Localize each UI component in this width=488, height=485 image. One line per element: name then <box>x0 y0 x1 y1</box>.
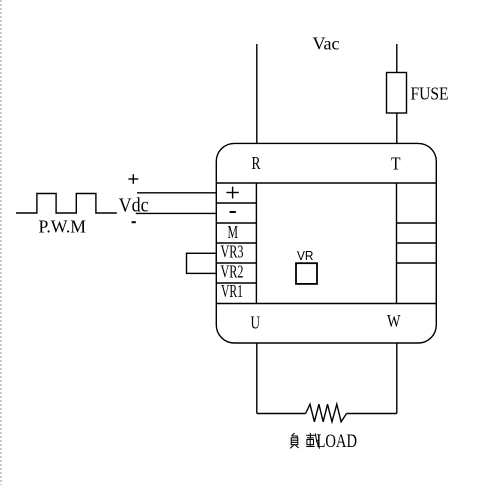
controller box U1 <box>216 143 436 343</box>
left pin cell divider 1 <box>216 202 256 204</box>
svg-text:P.W.M: P.W.M <box>39 216 87 236</box>
svg-text:VR: VR <box>297 248 314 263</box>
right cell divider 3 <box>397 262 437 264</box>
label LOAD <box>317 431 358 452</box>
wire load resistor to W <box>347 413 397 415</box>
label + (Vdc polarity) <box>128 178 138 180</box>
jumper loop VR3-VR2 <box>187 253 217 273</box>
svg-text:LOAD: LOAD <box>317 431 358 452</box>
pin label + <box>226 192 238 194</box>
fuse FUSE <box>387 73 407 114</box>
pin VR1 <box>221 281 243 301</box>
left pin cell divider 5 <box>216 282 256 284</box>
right cell divider 2 <box>397 242 437 244</box>
pin label - <box>230 211 236 213</box>
terminal W <box>387 311 401 331</box>
wire fuse to terminal T <box>396 113 398 143</box>
pin M <box>228 222 239 242</box>
wire W down <box>396 343 398 414</box>
node Vac <box>313 34 340 54</box>
svg-text:Vac: Vac <box>313 34 340 54</box>
left pin cell divider 3 <box>216 242 256 244</box>
wire U to load resistor <box>257 413 306 415</box>
svg-text:VR3: VR3 <box>221 242 244 262</box>
label P.W.M <box>39 216 87 236</box>
pin VR2 <box>221 261 244 281</box>
left pin cell divider 2 <box>216 222 256 224</box>
resistor LOAD <box>306 404 347 422</box>
svg-text:VR1: VR1 <box>221 281 243 301</box>
label VR <box>297 248 314 263</box>
wire Vdc- to pin - <box>136 212 217 214</box>
svg-text:T: T <box>391 154 401 174</box>
terminal R <box>252 153 261 173</box>
wire Vac to terminal R <box>256 44 258 143</box>
wire Vdc+ to pin + <box>137 192 216 194</box>
wire U down <box>256 343 258 414</box>
potentiometer VR <box>296 263 317 284</box>
terminal T <box>391 154 401 174</box>
PWM waveform symbol <box>16 194 117 214</box>
label FUSE <box>411 84 449 104</box>
label 負 (load) drawn glyph <box>290 433 298 448</box>
inner divider left column <box>255 183 257 304</box>
pin VR3 <box>221 242 244 262</box>
label - (Vdc polarity) <box>132 221 136 223</box>
terminal U <box>251 312 261 332</box>
inner divider right column <box>396 183 398 304</box>
svg-text:M: M <box>228 222 239 242</box>
page left dotted guide (decorative) <box>0 0 2 485</box>
right cell divider 1 <box>397 222 437 224</box>
box top band divider <box>216 182 436 184</box>
box bottom band divider <box>216 303 436 305</box>
svg-text:U: U <box>251 312 261 332</box>
wire Vac to fuse <box>396 44 398 73</box>
left pin cell divider 4 <box>216 262 256 264</box>
svg-text:VR2: VR2 <box>221 261 244 281</box>
node Vdc <box>119 195 149 217</box>
svg-text:R: R <box>252 153 261 173</box>
label 載 (load) drawn glyph <box>306 433 320 449</box>
svg-text:W: W <box>387 311 401 331</box>
svg-text:FUSE: FUSE <box>411 84 449 104</box>
